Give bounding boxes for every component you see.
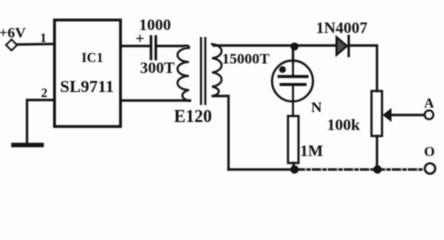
svg-text:1M: 1M [300,143,323,160]
wire 1M to rail [292,163,294,170]
neon lamp electrodes [292,62,294,76]
wire pin1 [18,43,55,46]
wire diode to corner and down to pot [350,46,377,92]
svg-text:+6V: +6V [0,26,26,42]
transformer core [200,38,202,104]
wire secondary top [214,44,337,46]
svg-text:IC1: IC1 [82,50,104,65]
wire bottom rail solid [229,168,298,170]
svg-text:A: A [424,97,435,112]
wire junction to neon lamp [292,46,294,63]
terminal A [425,110,434,119]
wire secondary bottom [213,96,229,170]
svg-text:E120: E120 [174,106,212,126]
wire IC to transformer primary bottom [121,99,191,101]
op-amp U1 box IC1 SL9711 [55,20,121,127]
transformer T1 secondary winding 15000T [212,44,222,96]
svg-text:N: N [311,100,322,116]
terminal O [425,163,435,173]
node junction bottom right [373,165,381,173]
node junction bottom left [290,165,298,173]
svg-text:1: 1 [40,30,47,45]
terminal +6V [6,40,17,51]
neon lamp gas dot [279,66,286,73]
svg-text:15000T: 15000T [222,52,270,68]
svg-text:300T: 300T [140,60,175,77]
wire capacitor to transformer primary [157,45,183,47]
svg-text:1N4007: 1N4007 [316,20,368,37]
node junction top (neon branch) [291,43,299,51]
svg-text:+: + [136,31,145,48]
svg-text:2: 2 [41,85,48,100]
wire pin2 [27,100,55,144]
potentiometer RP 100k body [372,91,383,136]
wire pot to rail [376,136,378,170]
svg-text:SL9711: SL9711 [60,77,114,96]
svg-text:O: O [424,145,435,160]
diode D1 1N4007 [337,37,348,55]
neon lamp N envelope [272,61,313,102]
svg-text:100k: 100k [327,117,360,134]
wire IC to capacitor [121,45,151,47]
ground [14,143,42,148]
transformer T1 primary winding 300T [178,46,190,101]
resistor R1 1M [288,116,299,163]
potentiometer wiper arrow [391,114,425,116]
capacitor C1 1000 plates [150,37,153,60]
wire bottom rail dash-dot [297,168,424,170]
